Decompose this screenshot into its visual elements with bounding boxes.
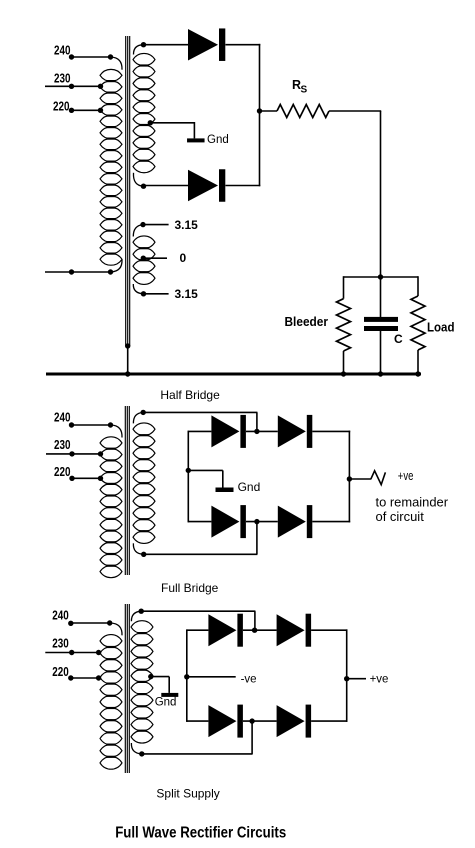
svg-text:220: 220 bbox=[54, 465, 71, 479]
ground symbol Gnd3 bbox=[161, 693, 178, 697]
diode D10 bbox=[277, 705, 305, 737]
transformer T2 primary winding bbox=[100, 437, 122, 449]
svg-text:-ve: -ve bbox=[241, 673, 257, 685]
node bridge3 left mid (-ve) bbox=[184, 674, 189, 679]
wire T2 secondary bottom end curve bbox=[133, 543, 143, 554]
wire T1 primary bottom tap bbox=[45, 271, 111, 273]
wire capacitor top lead bbox=[380, 277, 382, 317]
svg-text:240: 240 bbox=[54, 44, 71, 58]
transformer T1 core bbox=[125, 36, 127, 346]
node core-rail junction bbox=[125, 371, 130, 376]
ground symbol Gnd2 bbox=[216, 488, 234, 493]
svg-text:of circuit: of circuit bbox=[376, 509, 425, 524]
node bridge2 output bbox=[347, 476, 352, 481]
wire T3 primary top end curve bbox=[111, 623, 123, 635]
transformer T1 primary winding bbox=[100, 69, 122, 81]
wire bridge2 ground branch bbox=[188, 469, 223, 471]
wire T2 secondary top end curve bbox=[133, 412, 143, 423]
wire capacitor bottom lead bbox=[380, 331, 382, 374]
wire +ve output stub bbox=[349, 478, 371, 480]
wire bridge3 left rail bbox=[186, 629, 188, 722]
node bridge3 bottom junction bbox=[249, 718, 254, 723]
diode D5 bbox=[211, 506, 239, 538]
svg-text:Full Bridge: Full Bridge bbox=[161, 581, 219, 595]
wire load top lead bbox=[417, 276, 419, 296]
wire right vertical D1-D2 bbox=[259, 44, 261, 186]
resistor Bleeder bbox=[337, 299, 351, 351]
transformer T1 secondary HT winding bbox=[133, 53, 155, 65]
node bridge3 top junction bbox=[252, 628, 257, 633]
break symbol (wire continues) bbox=[371, 471, 386, 485]
wire bottom rail bbox=[46, 373, 421, 376]
wire T1 filament top end curve bbox=[133, 225, 143, 237]
node bridge2 left mid bbox=[186, 468, 191, 473]
wire 3.15 bottom tap bbox=[141, 291, 146, 296]
wire T1 secondary top tap to diode D1 bbox=[141, 42, 146, 47]
wire 3.15 top tap bbox=[140, 222, 145, 227]
node load-rail junction bbox=[415, 371, 420, 376]
resistor Load bbox=[411, 296, 425, 350]
node bridge3 right mid (+ve) bbox=[344, 676, 349, 681]
transformer T2 secondary winding bbox=[133, 423, 155, 435]
node bridge2 bottom junction bbox=[254, 519, 259, 524]
wire -ve output stub bbox=[187, 676, 236, 678]
node top rail junction bbox=[378, 274, 383, 279]
wire top rail bbox=[344, 276, 419, 278]
wire 0 centre tap bbox=[141, 256, 146, 261]
wire T3 secondary bottom end curve bbox=[131, 743, 141, 754]
resistor RS bbox=[277, 105, 329, 118]
wire 220 tap T2 bbox=[72, 477, 101, 479]
wire T3 secondary top end curve bbox=[131, 611, 141, 621]
wire D4 cathode to right rail bbox=[312, 430, 350, 432]
svg-text:Gnd: Gnd bbox=[238, 480, 261, 494]
wire T1 secondary bottom end curve bbox=[133, 173, 143, 186]
wire 220 tap T3 bbox=[71, 677, 99, 679]
wire 230 tap bbox=[45, 85, 101, 87]
wire load bottom lead bbox=[417, 350, 419, 374]
wire D5 cathode to junction bbox=[246, 521, 278, 523]
transformer T3 secondary winding bbox=[131, 621, 153, 634]
wire 240 tap T2 bbox=[72, 424, 112, 426]
wire T3 bottom tap to bridge bbox=[139, 751, 144, 756]
wire T2 primary top end curve bbox=[111, 425, 122, 438]
wire T1 centre tap to ground bbox=[148, 120, 153, 125]
svg-text:+ve: +ve bbox=[398, 469, 414, 483]
wire node to Rs bbox=[260, 110, 278, 112]
svg-text:3.15: 3.15 bbox=[175, 218, 199, 232]
svg-text:C: C bbox=[394, 332, 403, 346]
wire bleeder bottom lead bbox=[343, 351, 345, 374]
diode D3 bbox=[211, 415, 239, 447]
wire D10 cathode to right rail bbox=[311, 720, 347, 722]
wire 230 tap T3 bbox=[45, 652, 98, 654]
svg-text:Gnd: Gnd bbox=[155, 696, 177, 708]
svg-text:220: 220 bbox=[53, 100, 70, 114]
wire 220 tap bbox=[72, 109, 101, 111]
node bleeder-rail junction bbox=[341, 371, 346, 376]
transformer T3 core bbox=[124, 604, 126, 773]
svg-text:Split Supply: Split Supply bbox=[156, 787, 219, 801]
wire bridge3 top-left segment bbox=[187, 629, 209, 631]
wire D1 cathode to node bbox=[226, 44, 261, 46]
wire D8 cathode to right rail bbox=[311, 629, 347, 631]
svg-text:240: 240 bbox=[54, 410, 71, 424]
wire D2 cathode to node bbox=[226, 185, 261, 187]
wire T2 bottom tap to bridge bbox=[141, 552, 146, 557]
svg-text:S: S bbox=[301, 85, 308, 96]
wire bridge2 bottom-left segment bbox=[188, 521, 211, 523]
svg-text:Half Bridge: Half Bridge bbox=[160, 388, 220, 402]
wire 230 tap T2 bbox=[46, 453, 101, 455]
wire +ve output stub bridge3 bbox=[347, 678, 366, 680]
node A (rectifier output) bbox=[257, 108, 262, 113]
wire D7 cathode to junction bbox=[243, 629, 277, 631]
svg-text:Bleeder: Bleeder bbox=[285, 314, 329, 329]
svg-text:230: 230 bbox=[54, 72, 71, 86]
diode D7 bbox=[208, 614, 236, 646]
wire bridge2 top-left segment bbox=[188, 430, 211, 432]
wire 240 tap T3 bbox=[71, 622, 111, 624]
wire T1 primary bottom end curve bbox=[111, 260, 123, 273]
wire T1 secondary bottom tap to diode D2 bbox=[141, 184, 146, 189]
wire bridge3 bottom-left segment bbox=[187, 720, 209, 722]
wire 240 tap bbox=[72, 56, 111, 58]
diode D8 bbox=[277, 614, 305, 646]
wire T1 core to bottom rail bbox=[125, 343, 130, 348]
wire bridge2 right rail bbox=[348, 431, 350, 523]
svg-text:Gnd: Gnd bbox=[207, 134, 229, 146]
wire bleeder top lead bbox=[343, 276, 345, 299]
svg-text:to remainder: to remainder bbox=[376, 495, 449, 510]
svg-text:0: 0 bbox=[180, 251, 187, 265]
diode D1 bbox=[188, 29, 218, 61]
wire T3 centre tap to ground bbox=[148, 674, 153, 679]
wire D9 cathode to junction bbox=[243, 720, 277, 722]
wire bridge2 left rail bbox=[187, 431, 189, 523]
svg-text:230: 230 bbox=[54, 438, 71, 452]
node capacitor-rail junction bbox=[378, 371, 383, 376]
svg-text:Full Wave Rectifier Circuits: Full Wave Rectifier Circuits bbox=[115, 825, 286, 842]
capacitor C bottom plate bbox=[364, 326, 398, 331]
transformer T1 filament winding bbox=[133, 236, 155, 248]
svg-text:3.15: 3.15 bbox=[175, 287, 199, 301]
svg-text:+ve: +ve bbox=[370, 673, 389, 685]
wire T1 primary top end curve bbox=[111, 57, 123, 70]
transformer T3 primary winding bbox=[100, 635, 122, 648]
diode D9 bbox=[208, 705, 236, 737]
diode D2 bbox=[188, 170, 218, 202]
svg-text:230: 230 bbox=[52, 636, 69, 650]
wire T1 secondary top end curve bbox=[133, 45, 143, 55]
wire D3 cathode to junction bbox=[246, 430, 278, 432]
wire T1 filament bottom end curve bbox=[133, 284, 143, 294]
wire T3 top tap to bridge bbox=[139, 609, 144, 614]
diode D4 bbox=[278, 415, 306, 447]
wire Rs to load section bbox=[329, 110, 381, 112]
svg-text:Load: Load bbox=[427, 319, 455, 334]
ground symbol Gnd1 bbox=[187, 138, 205, 142]
transformer T2 core bbox=[124, 406, 126, 575]
node bridge2 top junction bbox=[254, 429, 259, 434]
capacitor C top plate bbox=[364, 317, 398, 322]
svg-text:240: 240 bbox=[52, 609, 69, 623]
svg-text:220: 220 bbox=[52, 665, 69, 679]
diode D6 bbox=[278, 506, 306, 538]
wire D6 cathode to right rail bbox=[312, 521, 350, 523]
wire T2 top tap to bridge bbox=[141, 410, 146, 415]
wire bridge3 right rail bbox=[346, 629, 348, 722]
